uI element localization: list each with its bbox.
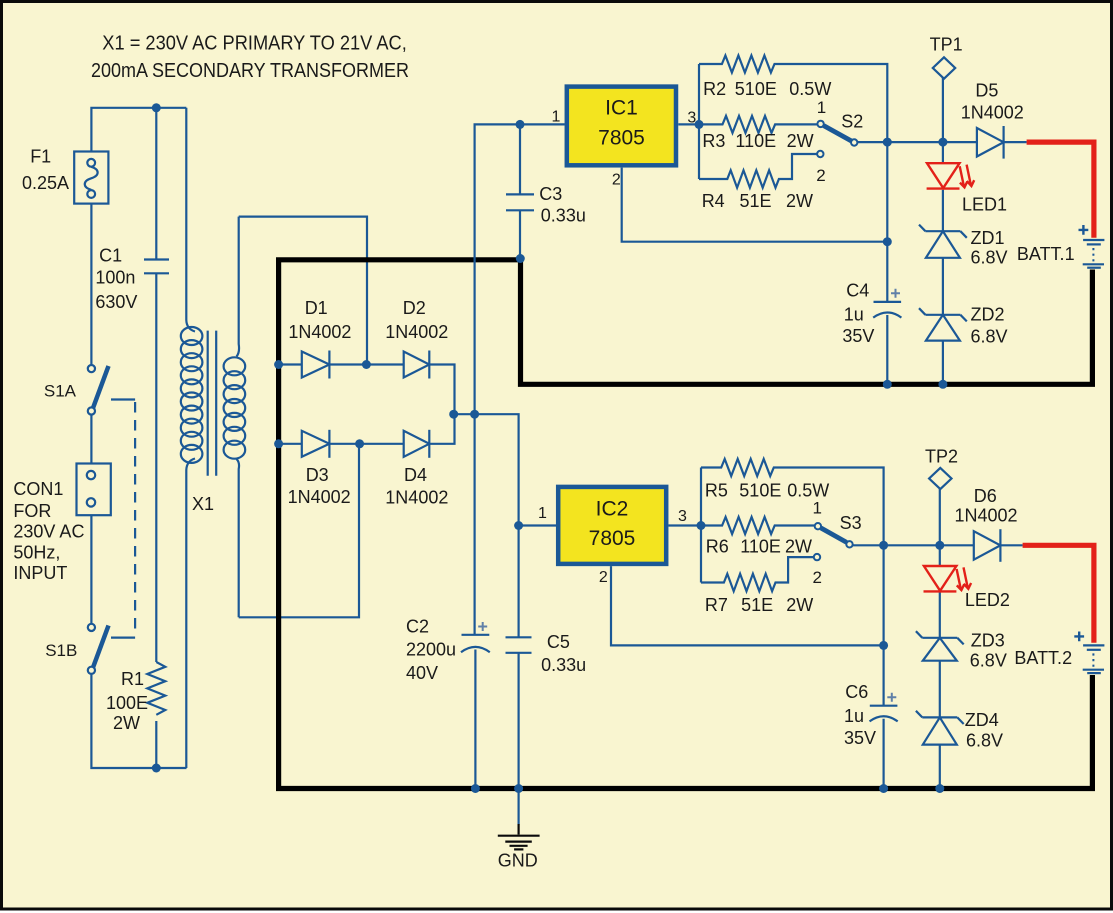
diode D4 [404,414,455,458]
zener ZD2 [919,308,967,340]
svg-text:D4: D4 [404,465,427,485]
resistor R5 [701,459,884,545]
wire fuse bottom to S1A [90,204,92,365]
svg-text:0.33u: 0.33u [541,206,586,226]
node bridge D3 left [274,439,283,448]
red wire to BATT.2 [1023,545,1094,642]
svg-text:LED1: LED1 [962,195,1007,215]
capacitor C6 [870,693,898,722]
svg-text:BATT.2: BATT.2 [1014,648,1072,668]
svg-text:IC1: IC1 [605,97,638,120]
svg-text:F1: F1 [30,147,51,167]
svg-text:510E: 510E [735,79,777,99]
svg-text:GND: GND [498,851,538,871]
svg-text:1: 1 [538,505,547,522]
resistor R4 [699,154,817,188]
vertical C4 column [886,242,888,302]
node S2 output [883,138,892,147]
capacitor C3 [506,124,534,258]
svg-text:S3: S3 [840,513,862,533]
wire bridge + node [455,414,519,525]
node vertical R2-R4 [698,64,700,179]
svg-text:3: 3 [687,110,696,127]
switch S2 [817,121,887,157]
node top-left [152,103,161,112]
LED2 column wires [939,545,941,566]
node R1 bottom [152,764,161,773]
node bridge + [449,410,458,419]
capacitor C2 [461,622,490,789]
svg-text:2W: 2W [786,191,813,211]
svg-text:2200u: 2200u [406,640,456,660]
svg-text:6.8V: 6.8V [971,248,1008,268]
svg-text:S1B: S1B [45,641,77,660]
svg-text:2W: 2W [113,713,140,733]
fuse F1 [74,152,108,204]
LED1 column wires [942,142,944,163]
switch S1B [88,624,109,674]
node bridge D1-D2 [362,360,371,369]
svg-text:6.8V: 6.8V [966,731,1003,751]
wire secondary top to bridge [239,217,367,365]
svg-text:1u: 1u [844,305,864,325]
svg-text:40V: 40V [406,663,438,683]
svg-text:6.8V: 6.8V [971,327,1008,347]
svg-text:R2: R2 [703,79,726,99]
note text [91,33,409,83]
svg-text:FOR: FOR [13,501,51,521]
svg-text:0.25A: 0.25A [22,173,69,193]
diode D1 [279,351,404,379]
svg-text:0.5W: 0.5W [789,79,831,99]
node IC1 pin3 [695,120,704,129]
svg-text:100E: 100E [106,693,148,713]
wire node to C1 [155,108,157,260]
resistor R1 [147,662,165,715]
vertical C6 column [882,645,884,705]
svg-text:S1A: S1A [44,382,77,401]
svg-text:CON1: CON1 [13,479,63,499]
svg-text:1N4002: 1N4002 [955,506,1018,526]
svg-text:7805: 7805 [589,527,636,550]
svg-text:X1 = 230V AC PRIMARY TO 21V AC: X1 = 230V AC PRIMARY TO 21V AC, [102,33,407,55]
svg-text:S2: S2 [841,112,863,132]
svg-text:2: 2 [816,166,825,185]
wire S2 node to pin2 row [886,142,888,242]
wire R1 bottom [155,721,157,768]
svg-text:51E: 51E [741,595,773,615]
svg-text:C4: C4 [846,281,869,301]
svg-text:1N4002: 1N4002 [385,488,448,508]
node C5-GND ground [514,784,523,793]
svg-text:6.8V: 6.8V [970,651,1007,671]
svg-text:1N4002: 1N4002 [288,322,351,342]
wire output rail 2 [884,544,974,546]
svg-text:0.33u: 0.33u [541,655,586,675]
svg-text:0.5W: 0.5W [787,481,829,501]
svg-text:110E: 110E [735,131,776,151]
svg-text:35V: 35V [842,326,874,346]
svg-text:1N4002: 1N4002 [961,103,1024,123]
zener ZD1 [919,225,967,258]
node TP2-D6 [935,541,944,550]
svg-text:D5: D5 [975,81,998,101]
svg-text:200mA SECONDARY TRANSFORMER: 200mA SECONDARY TRANSFORMER [91,60,409,82]
wire C1 to R1 [155,273,157,662]
node C4 ground [883,380,892,389]
svg-text:1: 1 [552,109,561,126]
diode D6 [974,529,1023,562]
svg-text:INPUT: INPUT [13,563,67,583]
node + rail [470,410,479,419]
red wire to BATT.1 [1027,142,1094,238]
resistor R2 [699,56,887,143]
resistor R3 [699,116,817,133]
svg-text:IC2: IC2 [596,498,629,521]
node IC2 pin2 row [879,641,888,650]
node C2 ground [471,784,480,793]
svg-text:X1: X1 [192,494,214,514]
svg-text:1N4002: 1N4002 [288,487,351,507]
svg-text:ZD1: ZD1 [971,228,1005,248]
ground symbol [498,824,540,849]
svg-text:R6: R6 [706,537,729,557]
test point TP2 [929,468,951,545]
svg-text:C1: C1 [99,245,122,265]
svg-text:TP2: TP2 [925,447,958,467]
connector CON1 [77,464,111,516]
node bridge D3-D4 [355,439,364,448]
regulator IC2 7805 [558,487,666,564]
svg-text:C5: C5 [547,632,570,652]
svg-text:1N4002: 1N4002 [385,322,448,342]
black ground bus [279,260,1093,789]
wire secondary bottom to bridge [239,444,359,618]
resistor R6 [701,517,815,534]
svg-text:LED2: LED2 [965,590,1010,610]
node IC1 pin2 row [883,237,892,246]
node ZD2 ground [938,380,947,389]
capacitor C4 [873,289,901,318]
diode D2 [404,351,455,415]
capacitor C5 [506,526,532,789]
LED2 [924,566,972,591]
svg-text:35V: 35V [844,728,876,748]
wire S1B to bottom corner to transformer primary bottom [91,674,186,768]
svg-text:C6: C6 [845,682,868,702]
svg-text:ZD3: ZD3 [971,631,1005,651]
svg-text:BATT.1: BATT.1 [1017,244,1075,264]
transformer X1 [181,108,245,768]
svg-text:1: 1 [813,499,822,518]
svg-text:2: 2 [599,569,608,586]
svg-text:50Hz,: 50Hz, [13,543,60,563]
IC1 pin wires [678,123,699,125]
battery BATT.1 [1079,225,1105,268]
wire S3 node to pin2 row [882,545,884,645]
svg-text:R3: R3 [702,131,725,151]
svg-text:ZD4: ZD4 [965,710,999,730]
svg-text:230V AC: 230V AC [13,521,84,541]
node C3 ground [516,254,525,263]
node C6 ground [879,784,888,793]
test point TP1 [933,57,955,142]
svg-text:110E: 110E [740,537,781,557]
svg-text:C2: C2 [406,616,429,636]
svg-text:1u: 1u [844,706,864,726]
svg-text:D2: D2 [403,298,426,318]
zener ZD4 [916,711,964,745]
capacitor C1 [144,260,169,274]
wire CON1 to S1B [90,515,92,624]
wire + rail to IC1 and C2 [475,124,565,634]
svg-text:TP1: TP1 [930,35,963,55]
svg-text:510E: 510E [739,481,781,501]
svg-text:2W: 2W [785,537,812,557]
svg-text:R1: R1 [121,669,144,689]
regulator IC1 7805 [567,87,676,166]
svg-text:R4: R4 [702,191,725,211]
node vertical R5-R7 [700,468,702,583]
wire output rail 1 [887,141,977,143]
node IC2 pin1 [514,521,523,530]
svg-text:3: 3 [678,508,687,525]
battery BATT.2 [1074,632,1104,674]
svg-text:D1: D1 [305,298,328,318]
diode D3 [279,430,404,458]
wire top-left corner to transformer [91,108,186,152]
node IC2 pin3 [697,521,706,530]
svg-text:2W: 2W [786,595,813,615]
wire S1A to CON1 [90,415,92,464]
LED1 [927,163,975,188]
svg-text:2: 2 [612,172,621,189]
svg-text:C3: C3 [539,184,562,204]
node S3 output [879,541,888,550]
dashed mechanical link S1A-S1B [111,400,135,638]
svg-text:2W: 2W [787,131,814,151]
svg-text:D6: D6 [974,486,997,506]
svg-text:7805: 7805 [598,127,645,150]
svg-text:D3: D3 [306,465,329,485]
svg-text:R5: R5 [705,481,728,501]
IC2 pin wires [519,524,556,526]
ground GND stem [517,789,519,825]
svg-text:100n: 100n [95,268,135,288]
svg-text:1: 1 [817,98,826,117]
switch S3 [814,523,884,560]
node IC1 pin1 [516,120,525,129]
node TP1-D5 [938,138,947,147]
svg-text:R7: R7 [705,595,728,615]
switch S1A [88,365,109,415]
svg-text:51E: 51E [740,191,772,211]
node ZD4 ground [935,784,944,793]
zener ZD3 [916,631,964,661]
svg-text:ZD2: ZD2 [971,305,1005,325]
diode D5 [977,126,1027,159]
resistor R7 [701,557,814,591]
svg-text:630V: 630V [95,292,137,312]
svg-text:2: 2 [813,568,822,587]
node bridge D1 left [274,360,283,369]
